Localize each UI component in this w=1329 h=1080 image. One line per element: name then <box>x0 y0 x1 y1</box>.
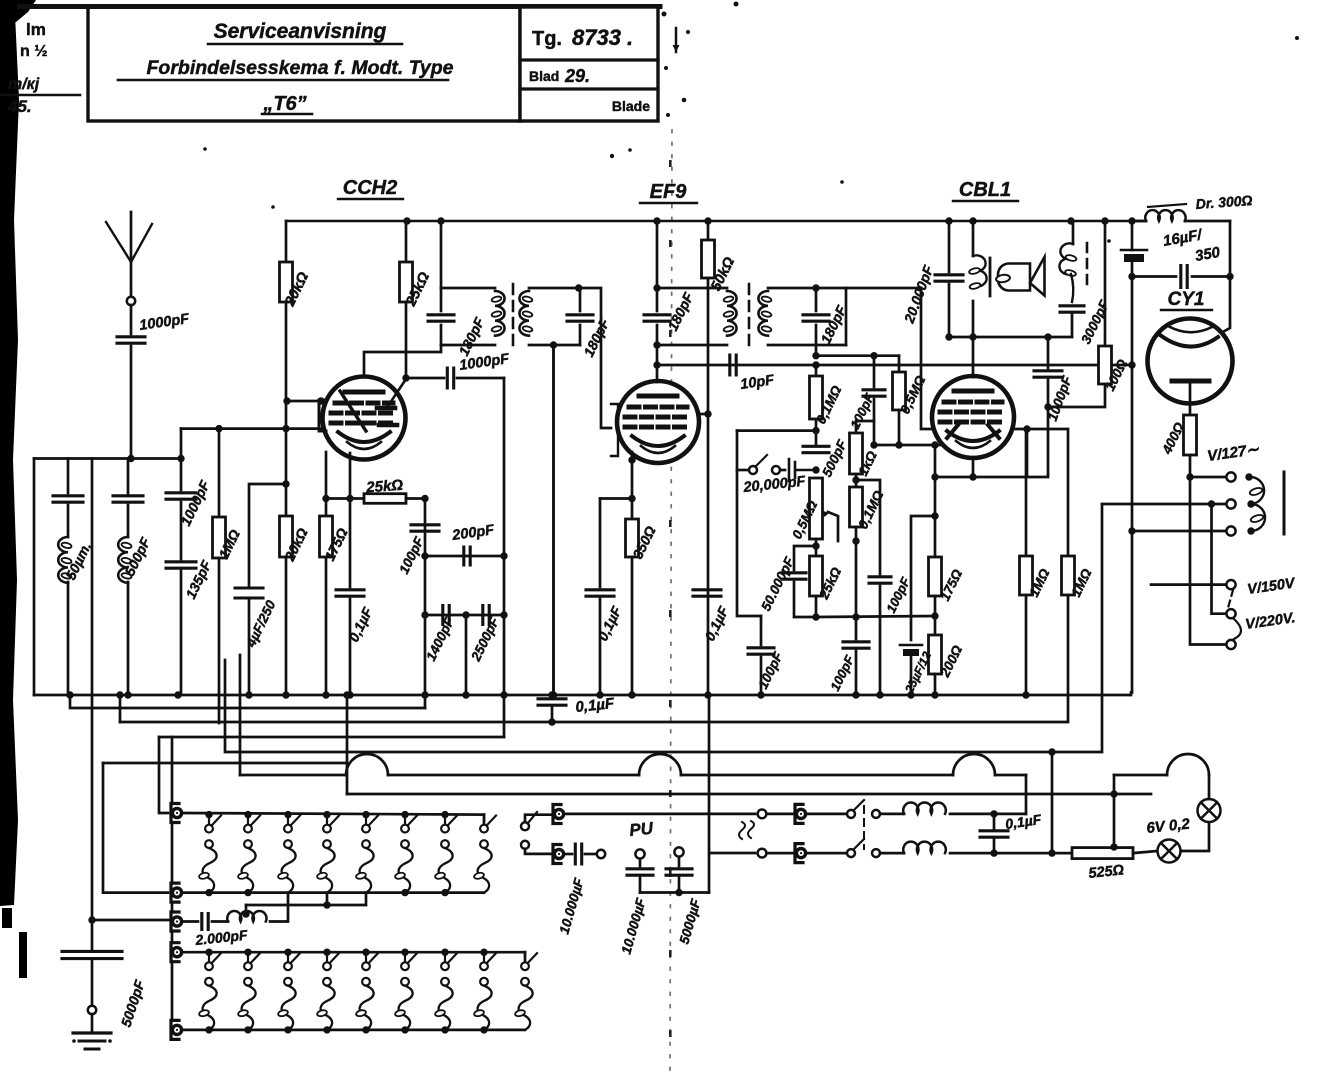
wire: x159 to band terminal 1 <box>159 737 168 813</box>
capacitor 1000pF coupling <box>166 493 196 499</box>
wire: x1027 diode tap <box>1026 429 1029 475</box>
terminal gram bottom <box>553 845 561 864</box>
wire: 5000pF to earth <box>91 961 94 1006</box>
node: diode tap <box>1023 425 1030 432</box>
switch unit B4 <box>316 952 339 1030</box>
switch unit A4 <box>316 815 339 893</box>
IF2 core dashes <box>748 284 751 350</box>
wire: CBL1 plate <box>972 337 975 377</box>
switch mains bottom pole <box>807 839 904 857</box>
wire: grid line feeds antenna coupling column <box>180 429 183 490</box>
wire: 25k to x425 <box>406 497 425 500</box>
wire: antenna lead <box>130 305 133 334</box>
capacitor 180pF IF2 primary <box>644 315 670 321</box>
capacitor 100pF detector <box>863 356 885 445</box>
wire: y430 link <box>737 429 816 432</box>
capacitor 135pF <box>166 562 196 568</box>
switch unit A8 <box>483 815 486 824</box>
wire: 200pF link y556 <box>425 555 504 558</box>
connector circle earth <box>88 1006 96 1014</box>
node: 1k-0.1M junction <box>852 476 859 483</box>
wire: lamp jump arc <box>1167 754 1209 775</box>
capacitor 100pF to 175Ω <box>856 480 891 695</box>
terminal A2 <box>171 883 179 902</box>
CCH2 triode anode diagonal <box>388 379 406 406</box>
wire: EF9 cathode <box>631 452 634 499</box>
core dashes right coil <box>1086 243 1089 286</box>
wire: detector line y365 <box>657 364 1132 367</box>
wire: x347 riser <box>346 695 349 794</box>
node: x425 top <box>421 495 428 502</box>
resistor 100Ω <box>1048 221 1112 407</box>
wire: x103 to band bus 2 <box>103 763 168 893</box>
wire: x286 column down <box>285 401 288 516</box>
IF1 secondary <box>519 288 580 345</box>
node: pot bottom <box>812 542 819 549</box>
capacitor 3000pF <box>1060 306 1084 337</box>
svg-text:29.: 29. <box>564 66 590 86</box>
IF1 core dashes <box>512 284 515 350</box>
wire: x737 drop <box>737 431 761 616</box>
svg-text:CBL1: CBL1 <box>959 179 1011 201</box>
capacitor 100pF AF coupling <box>843 642 869 695</box>
capacitor 4µF/250 <box>235 484 286 695</box>
node: bus1 taps <box>205 811 212 818</box>
PU terminal 2 <box>666 847 692 892</box>
svg-text:8733 .: 8733 . <box>572 25 633 50</box>
lamp 6V 0.2 #1 <box>1158 840 1181 863</box>
switch unit B6 <box>394 952 417 1030</box>
svg-text:n ½: n ½ <box>20 43 48 60</box>
wire: ground bus y695 <box>34 694 1131 697</box>
switch unit A9 gram switch <box>521 812 551 854</box>
switch unit A1 <box>198 815 221 893</box>
wire: cathode node row y499 <box>326 497 364 500</box>
speaker <box>990 257 1045 296</box>
node: 0.1µF top <box>990 810 997 817</box>
node: EF9 screen tab <box>704 410 711 417</box>
switch unit B2 <box>237 952 260 1030</box>
wire: unit3 drop to 2000pF node <box>270 893 288 922</box>
node: ground bus junctions <box>66 691 73 698</box>
wire: x1132 main drop <box>1131 221 1134 250</box>
wire: x552 from IF1 <box>552 345 555 695</box>
wire: 1k feed from 100pF column <box>856 420 874 423</box>
node: 0.1M bottom <box>812 427 819 434</box>
CCH2 grid bracket <box>319 400 326 431</box>
svg-text:EF9: EF9 <box>650 181 688 203</box>
capacitor 1400pF <box>443 606 449 625</box>
wire: maze y722 from 1M2 <box>119 695 122 722</box>
switch mains top pole <box>807 800 904 818</box>
wire: IF2 sec tap y355 <box>815 345 818 356</box>
node: V127 tap <box>1186 473 1193 480</box>
svg-text:Forbindelsesskema f. Modt. Typ: Forbindelsesskema f. Modt. Type <box>146 57 453 79</box>
node: 100Ω link <box>1044 403 1051 410</box>
switch unit B7 <box>434 952 457 1030</box>
resistor 25kΩ anode 2 <box>400 221 413 378</box>
wire: AVC line drop x240 <box>239 655 242 775</box>
tube CCH2 <box>323 377 406 460</box>
wire: x172 to band bus 4 <box>171 737 174 1030</box>
capacitor 0.1µF across bus <box>538 699 566 722</box>
node: 525 tap <box>1110 843 1117 850</box>
capacitor 180pF IF1 secondary <box>567 315 593 321</box>
terminal A3 gram <box>171 912 179 931</box>
switch unit B8 <box>473 952 496 1030</box>
resistor 400Ω surge <box>1184 381 1197 477</box>
resistor 0.5MΩ IF grid stopper <box>893 356 906 445</box>
switch unit B3 <box>277 952 300 1030</box>
capacitor 0.1µF cathode <box>336 499 364 695</box>
mains connector top <box>710 810 793 854</box>
node: IF2 prim corners <box>653 284 660 291</box>
tube EF9 <box>617 381 699 463</box>
lamp 6V 0.2 #2 <box>1198 799 1221 822</box>
capacitor 1000pF to osc <box>406 368 504 388</box>
node: bus4 taps <box>205 1026 212 1033</box>
wire: tap row 1 <box>1190 476 1226 479</box>
terminal B1 <box>171 943 179 962</box>
resistor 0.1MΩ #2 <box>850 487 863 639</box>
wire: band bus 4 <box>183 1029 525 1032</box>
capacitor 2000pF <box>183 914 228 930</box>
wire: CCH2 cathode stubs <box>325 452 328 499</box>
capacitor 0.1µF screen <box>693 590 721 596</box>
wire: band bus 2 <box>183 891 484 894</box>
terminal mains top <box>795 804 803 823</box>
wire: gram line y814 <box>565 813 755 816</box>
wire: IF1 sec top to EF9 grid <box>579 288 611 428</box>
wire: CBL1 cathode row y477 <box>935 475 1048 477</box>
wire: lamp2 to arc <box>1208 775 1211 799</box>
voltage selector V middle <box>1212 504 1236 618</box>
mains connector bottom <box>758 849 793 858</box>
node: 25k anode node <box>402 374 409 381</box>
wire: subwire y905 <box>246 893 366 905</box>
selector arc link <box>1234 619 1241 639</box>
switch unit A5 <box>355 815 378 893</box>
wire: PU bracket <box>640 891 709 894</box>
capacitor 200pF <box>464 547 470 565</box>
PU terminal 1 <box>627 849 653 892</box>
capacitor 180pF IF2 secondary <box>803 288 829 345</box>
coil antenna series <box>227 911 266 922</box>
capacitor 180pF IF1 primary <box>428 315 454 321</box>
IF1 primary <box>441 221 505 345</box>
wire: padder row y615 <box>425 614 504 617</box>
wire: column between caps <box>180 502 183 559</box>
switch: tone switch <box>737 455 780 474</box>
coil 50µm tuned circuit 1 <box>53 459 83 696</box>
wire: into CCH2 at y401 <box>287 400 325 403</box>
voltage selector V220 <box>1190 477 1236 649</box>
node: bus3 taps <box>205 949 212 956</box>
wire: 135pF to ground bus <box>180 571 183 695</box>
resistor 1MΩ grid leak <box>213 429 226 723</box>
resistor 50kΩ screen <box>702 221 715 695</box>
field coil right <box>1059 221 1077 302</box>
node: 200pF tap <box>421 552 428 559</box>
node: 0.1µF bottom <box>990 849 997 856</box>
switch gang dashed link <box>863 806 865 849</box>
svg-text:PU: PU <box>628 819 654 840</box>
capacitor filter electrolytic <box>1121 250 1147 262</box>
terminal gram top <box>553 805 561 824</box>
choke mains top <box>903 802 946 813</box>
label mains wave symbol <box>739 822 745 839</box>
wire: maze y763 <box>103 762 347 765</box>
wire: y445 grid return <box>874 444 944 447</box>
wire: maze y708 <box>70 695 425 708</box>
wire: x933 column <box>934 445 937 557</box>
ground symbol earth <box>72 1033 112 1049</box>
wire: EF9 plate column x657 <box>656 221 659 382</box>
node: coil tap <box>242 910 249 917</box>
resistor 25kΩ horizontal <box>364 494 406 504</box>
IF2 primary box <box>657 288 737 345</box>
capacitor 2500pF <box>483 606 489 625</box>
terminal A1 <box>171 804 179 823</box>
scan artifact: fold line and specks right of title block <box>675 28 678 52</box>
output transformer primary coil <box>969 221 987 337</box>
resistor 350Ω cathode <box>626 499 639 696</box>
capacitor 20000pF across primary <box>935 221 963 337</box>
tube CY1 rectifier <box>1148 319 1233 404</box>
resistor 1MΩ #2 <box>120 556 1075 722</box>
wire: CCH2 grid line y428 <box>181 427 323 430</box>
wire: y617 link <box>816 616 935 617</box>
resistor 0.1MΩ AVC <box>810 365 823 444</box>
wire: y337 node row <box>949 336 1072 339</box>
capacitor 0.1µF mains <box>980 831 1008 837</box>
wire: antenna to tuner node <box>130 346 133 459</box>
capacitor 16µF/350 <box>1132 266 1230 288</box>
choke Dr.300Ω <box>1132 204 1230 221</box>
resistor 25kΩ AF <box>810 539 823 617</box>
resistor 200Ω <box>929 635 942 695</box>
capacitor 0.1µF EF9 cathode <box>586 499 632 696</box>
terminal B2 <box>171 1020 179 1039</box>
node: 20k to grid-2 wire <box>283 397 290 404</box>
wire: CCH2 anode to IF1 primary <box>364 345 441 377</box>
antenna <box>106 212 152 297</box>
wire: CBL1 right tab y429 <box>1013 429 1068 556</box>
node: bus2 taps <box>205 889 212 896</box>
resistor 1kΩ <box>850 421 863 487</box>
wire: lamp line to tap riser <box>1114 774 1167 777</box>
terminal mains bottom <box>795 844 803 863</box>
resistor 1MΩ #1 <box>1020 429 1033 695</box>
wire: right drop to CY1 plate <box>1219 221 1230 334</box>
wire: x504 column <box>503 378 506 737</box>
wire: IF2 sec to CBL1 grid <box>921 288 935 429</box>
switch unit A2 <box>237 815 260 893</box>
wire: tap riser <box>1113 775 1116 847</box>
wire: mains live riser <box>1052 504 1102 853</box>
potentiometer 0.5MΩ volume <box>810 478 839 541</box>
switch unit A7 <box>434 815 457 893</box>
capacitor 50000pF bracket <box>782 546 816 617</box>
switch unit B5 <box>355 952 378 1030</box>
tube CBL1 <box>932 376 1014 458</box>
selector dashed wiper <box>1228 590 1233 608</box>
title block: main box <box>88 7 520 121</box>
wire: tap row 3 <box>1132 530 1226 533</box>
title block: Tg box <box>520 7 658 121</box>
wire: maze y752 mains <box>225 660 1052 752</box>
wire: band bus 3 <box>183 951 525 954</box>
wire: maze y736 <box>159 736 504 739</box>
node: antenna junction <box>127 455 134 462</box>
wire: y458 horizontal to left <box>34 457 181 460</box>
resistor 20kΩ #2 <box>280 516 293 695</box>
antenna connector circle <box>127 297 135 305</box>
capacitor 25µF/12 electrolytic <box>900 516 935 695</box>
node: IF2 sec top <box>812 284 819 291</box>
wire: lamp1 to lamp2 <box>1181 822 1209 851</box>
wire: x425 column <box>424 499 427 709</box>
resistor 175Ω <box>320 499 333 695</box>
node: join at 1000pF column <box>177 455 184 462</box>
capacitor 10000µF gram <box>565 844 605 864</box>
svg-text:45.: 45. <box>7 97 32 116</box>
voltage selector V150 <box>1151 580 1236 589</box>
svg-text:Serviceanvisning: Serviceanvisning <box>214 20 387 43</box>
svg-text:Tg.: Tg. <box>532 28 562 50</box>
capacitor 10pF <box>730 355 736 375</box>
wire: maze y794 <box>347 793 1151 796</box>
mains transformer core bar <box>1283 472 1286 534</box>
capacitor 1000pF antenna <box>117 337 145 343</box>
node: 25k bottom <box>812 613 819 620</box>
wire: x709 riser to screen line <box>708 695 711 893</box>
svg-text:Blade: Blade <box>612 98 650 114</box>
node: detector line join <box>1128 361 1135 368</box>
svg-text:„T6”: „T6” <box>262 93 306 115</box>
capacitor 20000pF tone <box>780 459 816 481</box>
wire: B+ top rail <box>286 220 1146 223</box>
wire: left drop to ground bus <box>33 459 36 696</box>
wire: band bus 1 <box>183 813 484 815</box>
node: IF1 sec bottom tap <box>550 341 557 348</box>
svg-text:CY1: CY1 <box>1168 289 1205 310</box>
resistor 20kΩ anode 1 <box>280 221 293 401</box>
switch unit A3 <box>277 815 300 893</box>
wire: x92 column to 5000pF <box>91 459 94 950</box>
node: pot top <box>812 466 819 473</box>
wire: IF1 sec bottom to ground bus <box>552 345 555 695</box>
EF9 grid bracket <box>611 404 618 456</box>
svg-text:m/кj: m/кj <box>8 76 40 93</box>
wire: 525 to lamp1 <box>1133 851 1157 853</box>
wire: x466 drop to ground <box>465 615 468 695</box>
capacitor 5000pF <box>62 951 122 958</box>
svg-text:lm: lm <box>26 20 46 39</box>
mains transformer primary winding <box>1249 477 1265 531</box>
switch unit A6 <box>394 815 417 893</box>
resistor 175Ω CBL1 cathode <box>929 557 942 635</box>
capacitor 100pF osc grid <box>411 525 439 531</box>
node: rail junctions <box>403 217 410 224</box>
capacitor 1000pF tone across OT <box>1034 337 1062 475</box>
resistor 525Ω barretter <box>1072 848 1133 859</box>
wire: maze y775 with jump arcs <box>240 754 1026 814</box>
node: wiper tap <box>852 537 859 544</box>
switch unit B1 <box>198 952 221 1030</box>
node: IF1 sec top <box>575 284 582 291</box>
capacitor 500pF <box>803 446 829 452</box>
switch unit B9 <box>524 952 527 962</box>
coil 500pF tuned circuit 2 <box>113 459 143 696</box>
wire: tap row 2 <box>1102 503 1226 506</box>
IF2 secondary <box>758 288 921 345</box>
node: on detector line <box>812 361 819 368</box>
svg-text:CCH2: CCH2 <box>343 177 397 199</box>
choke mains bottom <box>903 842 946 853</box>
scan artifact: left black edge bar <box>0 0 36 978</box>
svg-text:25kΩ: 25kΩ <box>365 477 404 497</box>
capacitor 100pF AF grid <box>748 616 774 695</box>
svg-text:Blad: Blad <box>529 68 559 84</box>
